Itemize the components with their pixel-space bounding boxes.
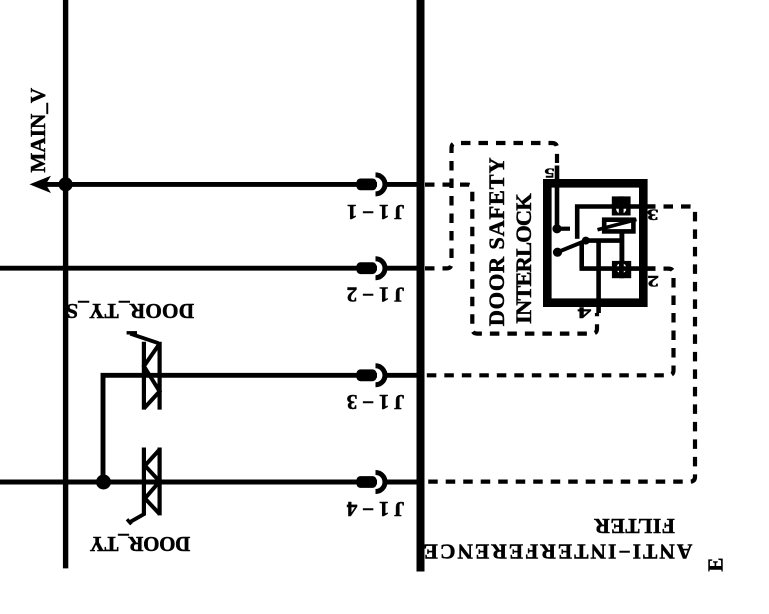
wire: J1-3 row, arc to bus bbox=[383, 373, 417, 378]
wire: pin 5 dot stub bbox=[557, 227, 570, 231]
wire: armature line to coil-side vertical bbox=[584, 238, 624, 243]
svg-text:DOOR_TY_S: DOOR_TY_S bbox=[66, 299, 194, 323]
node: junction of stub on J1-4 row bbox=[96, 475, 111, 490]
relay coil bbox=[598, 220, 637, 232]
wire: coil to lower contact vertical bbox=[619, 233, 624, 261]
wire: MAIN_V net horizontal (J1-1 row) bbox=[44, 182, 377, 187]
node: pin 5 terminal dot bbox=[552, 224, 561, 233]
wire: vertical from upper contact line down to armature bbox=[575, 205, 580, 239]
svg-text:3: 3 bbox=[647, 206, 659, 224]
svg-text:FILTER: FILTER bbox=[594, 514, 675, 538]
connector pin J1-1 bbox=[357, 175, 386, 194]
svg-text:J1−1: J1−1 bbox=[342, 200, 405, 224]
connector pin J1-4 bbox=[357, 473, 386, 492]
node: junction MAIN_V on left rail bbox=[59, 177, 73, 191]
wire: common feed through upper contact to pin 3 lead bbox=[575, 204, 656, 209]
switch armature (relay contact arm) bbox=[553, 237, 590, 257]
svg-text:DOOR SAFETY: DOOR SAFETY bbox=[484, 157, 509, 327]
svg-text:DOOR_TY: DOOR_TY bbox=[90, 532, 190, 556]
wire: J1-2 row, arc to bus bbox=[383, 266, 417, 271]
connector pin J1-3 bbox=[357, 366, 386, 385]
wire: J1-2 row bbox=[0, 266, 377, 271]
dashed net: J1-1 to relay pin 4 bbox=[425, 185, 597, 334]
connector pin J1-2 bbox=[357, 259, 386, 278]
svg-text:MAIN_V: MAIN_V bbox=[26, 87, 50, 172]
switch S1 DOOR_TY_S (door interlock switch, upper) bbox=[127, 333, 160, 410]
contact terminal T1 (to pin 3) bbox=[612, 196, 631, 215]
dashed net: relay pin 2 to J1-3 bbox=[425, 269, 674, 376]
relay K1 outline box bbox=[547, 183, 643, 302]
contact terminal T2 (to pin 2) bbox=[612, 261, 631, 278]
wire: J1 connector bus (thick vertical) bbox=[417, 0, 425, 572]
wire: left vertical rail bbox=[63, 0, 68, 568]
svg-text:2: 2 bbox=[647, 272, 659, 290]
switch S2 DOOR_TY (door interlock switch, lower) bbox=[127, 448, 160, 525]
wire: vertical from armature down to lower contact line bbox=[579, 241, 584, 269]
svg-text:INTERLOCK: INTERLOCK bbox=[511, 193, 536, 324]
svg-text:5: 5 bbox=[544, 165, 554, 180]
wire: J1-4 row bbox=[0, 480, 377, 485]
svg-text:J1−4: J1−4 bbox=[342, 497, 405, 521]
svg-text:J1−3: J1−3 bbox=[342, 390, 405, 414]
wire: J1-4 row, arc to bus bbox=[383, 480, 417, 485]
relay pin 4 lead bbox=[596, 241, 601, 313]
svg-text:ANTI−INTERFERENCE: ANTI−INTERFERENCE bbox=[422, 539, 693, 563]
svg-text:J1−2: J1−2 bbox=[342, 283, 405, 307]
svg-text:E: E bbox=[704, 558, 728, 572]
dashed net: J1-2 to relay pin 5 (interlock box outline) bbox=[425, 143, 557, 268]
dashed net: relay pin 3 to J1-4 bbox=[425, 207, 695, 482]
wire: J1-1 row, arc to bus bbox=[383, 182, 417, 187]
relay pin 5 lead bbox=[555, 166, 560, 230]
svg-text:4: 4 bbox=[578, 304, 592, 322]
wire: J1-3 row with stub down to J1-4 row bbox=[103, 375, 377, 482]
wire: lower contact feed through to pin 2 lead bbox=[580, 266, 656, 271]
arrow: MAIN_V direction bbox=[30, 176, 52, 193]
